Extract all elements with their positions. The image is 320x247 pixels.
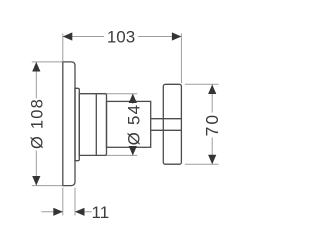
svg-text:103: 103 [107, 28, 135, 47]
svg-text:70: 70 [202, 113, 222, 136]
svg-text:Ø 54: Ø 54 [124, 104, 143, 146]
svg-text:Ø 108: Ø 108 [29, 98, 47, 149]
svg-text:11: 11 [92, 203, 110, 222]
